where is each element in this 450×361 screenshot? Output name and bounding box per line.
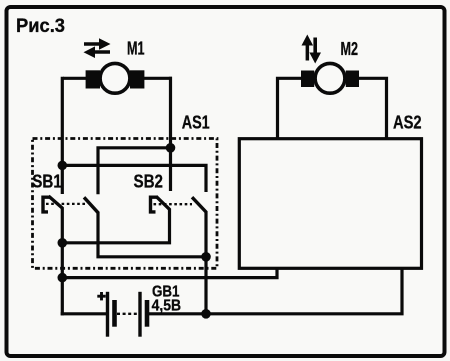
wire: vertical from M1 right down to SB2 left contact — [169, 77, 172, 191]
motor M2 — [301, 63, 359, 93]
pushbutton SB2 actuator plate — [151, 197, 158, 212]
wire: M1 left brush to left vertical — [63, 77, 88, 80]
wire: cross wire from left vertical right to SB2 right contact — [62, 165, 206, 192]
svg-text:SB2: SB2 — [134, 170, 164, 191]
node: junction left vertical / cross wire — [58, 161, 68, 171]
wire: M2 left brush to AS2 top — [278, 78, 303, 140]
wire: SB2 right pole bottom down to battery wire — [204, 212, 207, 314]
wire: battery bottom wire left segment — [61, 312, 108, 315]
switch SB1 left pole arm — [49, 196, 63, 209]
svg-text:SB1: SB1 — [32, 170, 62, 191]
box AS2 — [239, 139, 421, 269]
svg-text:4,5В: 4,5В — [152, 298, 182, 315]
svg-text:Рис.3: Рис.3 — [16, 15, 65, 37]
svg-text:AS1: AS1 — [182, 112, 210, 133]
battery GB1 — [108, 292, 148, 337]
wire: left vertical from M1 down to SB1 left contact — [61, 77, 64, 194]
wire: SB1 right pole bottom down and right to SB2 right vertical — [98, 212, 206, 257]
wire: cross wire from SB1 right contact up and right to M1 right wire — [98, 148, 171, 195]
node: junction SB1-right return / SB2-right vertical — [201, 252, 211, 262]
wire: battery bottom wire right segment up to AS2 bottom — [147, 267, 402, 314]
wire: SB1 left pole bottom down the left vertical to battery corner — [61, 208, 64, 316]
node: junction M1-right wire / cross wire — [166, 143, 176, 153]
pushbutton SB1 mechanical link (dashed) — [46, 203, 85, 205]
svg-text:M2: M2 — [341, 39, 359, 59]
switch SB2 right pole arm — [192, 197, 207, 212]
motor M1 — [86, 63, 145, 93]
wire: M2 right brush to AS2 top — [357, 78, 387, 140]
wire: SB2 left pole bottom down and left to left vertical — [62, 209, 169, 243]
switch SB2 left pole arm — [156, 196, 170, 210]
svg-text:AS2: AS2 — [393, 111, 422, 132]
pushbutton SB2 mechanical link (dashed) — [154, 203, 193, 205]
battery plus sign — [97, 292, 105, 300]
wire: M1 right brush to right vertical — [141, 77, 172, 80]
node: junction SB2-left return / left vertical — [58, 238, 68, 248]
rotation arrows of M1 (left-right double arrow) — [84, 38, 111, 58]
svg-text:M1: M1 — [127, 39, 145, 59]
switch SB1 right pole arm — [84, 197, 99, 213]
box AS1 (dash-dot border) — [33, 139, 218, 269]
node: junction battery wire / SB2-right vertical — [201, 309, 211, 319]
pushbutton SB1 actuator plate — [43, 197, 50, 212]
wire: AS2 bottom tap down and left to left vertical — [62, 267, 277, 278]
rotation arrows of M2 (up-down double arrow) — [302, 35, 322, 64]
node: junction AS2 tap / left vertical — [58, 273, 68, 283]
